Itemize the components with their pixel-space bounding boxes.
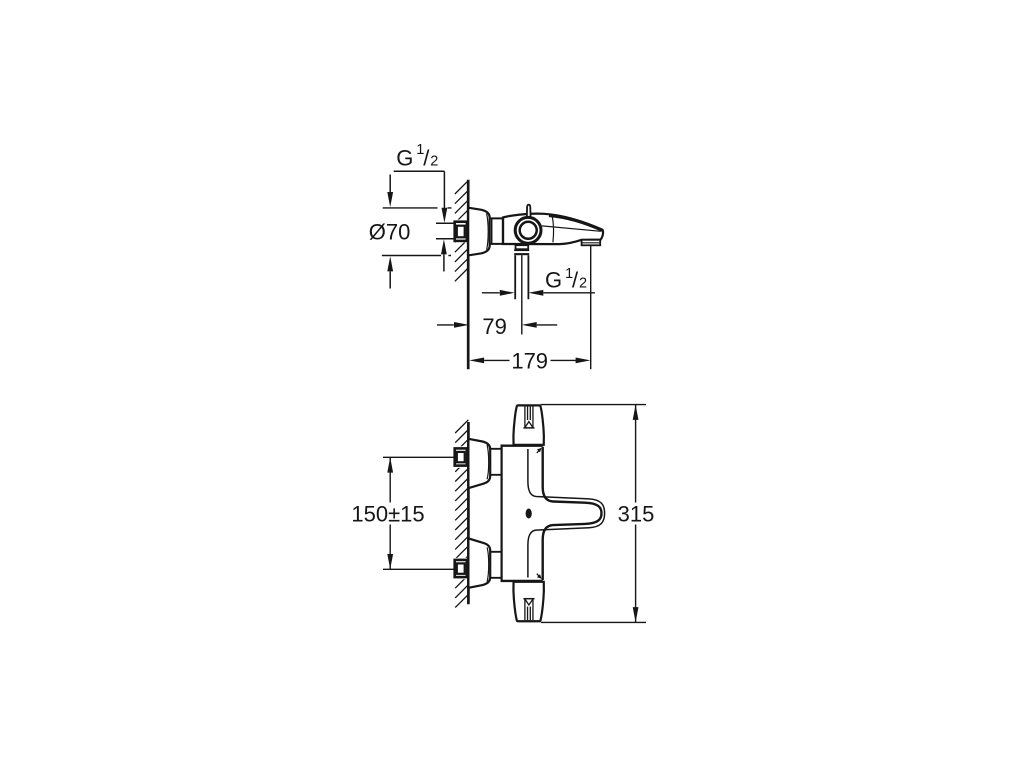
escutcheon (side view): [468, 208, 490, 256]
svg-text:2: 2: [430, 154, 438, 170]
wall face line (plan view): [467, 422, 470, 604]
svg-text:G: G: [396, 145, 413, 170]
dimension 315 extension lines: [541, 405, 646, 623]
shower outlet collar: [516, 245, 529, 249]
tiny indicator arrow upper body corner: [537, 450, 540, 453]
wall face line (side view): [467, 180, 470, 370]
spout inner thick contour with body right edge (plan view): [543, 447, 602, 580]
wall hatching (plan view): [455, 420, 468, 608]
diverter lever pin on top of knob: [527, 205, 531, 219]
G1/2 up arrow: [441, 239, 447, 254]
svg-text:Ø70: Ø70: [369, 220, 411, 245]
150±15 dim line: [389, 457, 391, 569]
shower hose pipe: [515, 255, 528, 299]
svg-text:G: G: [545, 267, 562, 292]
body/spout seam curve: [552, 216, 553, 243]
Ø70 bottom extension line: [382, 255, 451, 257]
svg-text:150±15: 150±15: [351, 502, 424, 527]
svg-text:2: 2: [579, 276, 587, 292]
knob inner ring: [520, 222, 537, 239]
shower outlet nut: [514, 249, 529, 251]
faucet body and spout (side view): [503, 214, 603, 244]
upper escutcheon (plan view): [468, 439, 490, 488]
body rectangle (plan view): [501, 446, 503, 581]
wall union fitting (side view, in-wall square): [453, 220, 469, 243]
wall hatching (side view): [455, 181, 468, 282]
dimension 79: [437, 324, 454, 326]
G1/2 lower dim line with arrows: [482, 292, 500, 294]
spout crease line: [542, 226, 601, 231]
svg-text:/: /: [423, 145, 430, 170]
thermostat knob (side view) outer ring: [515, 217, 541, 243]
lower neck (plan view): [490, 552, 501, 578]
thick top edge of spout: [549, 216, 602, 231]
spout outer thin contour (plan view): [528, 449, 605, 578]
svg-text:315: 315: [618, 502, 655, 527]
dimension 150±15 extension lines: [383, 457, 454, 569]
dimension G 1/2 (top label) leader: [394, 170, 445, 172]
lower handle flute: [525, 599, 533, 620]
neck between escutcheon and body: [490, 218, 503, 244]
dimension Ø70: top extension line: [383, 207, 452, 209]
lower wall union fitting (plan view): [453, 558, 469, 580]
G1/2 dim vertical + down arrow: [443, 171, 445, 208]
lower escutcheon highlight: [487, 547, 489, 581]
svg-text:79: 79: [482, 314, 506, 339]
lower handle knob (plan view): [513, 582, 543, 621]
G1/2 extension lines from fitting: [436, 223, 455, 239]
svg-text:179: 179: [511, 349, 548, 374]
svg-text:/: /: [572, 267, 579, 292]
Ø70 up arrow: [387, 256, 393, 271]
Ø70 down arrow: [389, 175, 391, 193]
upper wall union fitting (plan view): [453, 446, 469, 468]
tiny indicator arrow lower body corner: [537, 574, 540, 577]
aerator under spout tip: [582, 240, 601, 246]
upper handle knob (plan view): [513, 405, 543, 444]
shower outlet center extension line: [521, 255, 523, 334]
upper handle flute: [525, 406, 533, 427]
dimension 179: [469, 358, 484, 364]
upper neck (plan view): [490, 449, 501, 475]
body left edge: [502, 217, 504, 244]
upper escutcheon highlight: [487, 445, 489, 479]
315 dim line: [635, 405, 637, 623]
lower escutcheon (plan view): [468, 538, 490, 587]
escutcheon highlight line: [487, 213, 489, 249]
spout outlet extension line: [590, 245, 592, 369]
safety stop button (plan view): [526, 509, 532, 519]
